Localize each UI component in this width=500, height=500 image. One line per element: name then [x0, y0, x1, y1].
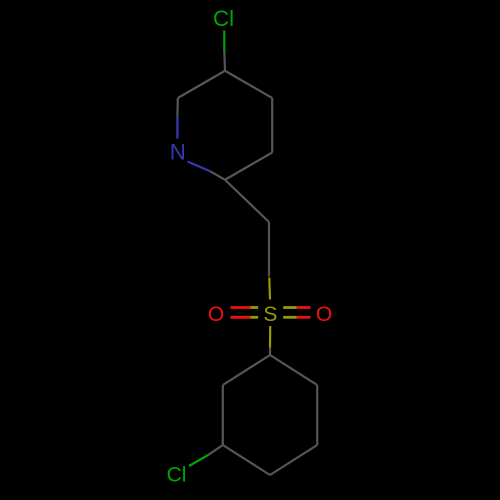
- S=O left double bond line 1 sulfur half: [251, 306, 259, 309]
- S=O left double bond line 1 oxygen half: [231, 306, 251, 309]
- bond N1-C6 carbon half: [210, 171, 225, 179]
- bond C2-N1 blue half: [176, 117, 178, 139]
- S=O right double bond line 2 sulfur half: [283, 316, 296, 319]
- ring edge C5-C6: [225, 153, 272, 180]
- ring edge C4-C5 right vertical: [271, 98, 273, 153]
- svg-text:Cl: Cl: [213, 6, 234, 31]
- S=O right double bond line 2 oxygen half: [297, 316, 311, 319]
- S=O left double bond line 2 oxygen half: [231, 316, 251, 319]
- ring edge C3-C4: [225, 71, 272, 98]
- bond C3'-Cl(bottom) green half: [189, 455, 208, 466]
- bond C2-N1 carbon half: [176, 98, 179, 117]
- chain bond C6-CH2a: [225, 180, 269, 222]
- wire ring edge C3-C2: [178, 71, 225, 98]
- bottom ring edge C2'-C3' left vertical: [222, 385, 224, 445]
- svg-text:N: N: [170, 139, 186, 164]
- bond CH2b-S sulfur colored: [268, 278, 271, 300]
- bond Cl(top)-C3 carbon half: [223, 51, 226, 71]
- bottom ring edge C1'-C2': [223, 355, 270, 385]
- bottom ring edge C4'-C5': [270, 445, 317, 475]
- S=O right double bond line 1 oxygen half: [297, 306, 311, 309]
- chain bond CH2a-CH2b: [268, 222, 270, 277]
- bottom ring edge C3'-C4': [223, 445, 270, 475]
- svg-text:O: O: [316, 303, 332, 326]
- S=O left double bond line 2 sulfur half: [251, 316, 259, 319]
- bottom ring edge C5'-C6' right vertical: [316, 385, 318, 445]
- svg-text:S: S: [263, 303, 277, 326]
- bond S-C1' carbon half: [269, 348, 271, 356]
- svg-text:O: O: [208, 303, 224, 326]
- bond C3'-Cl(bottom) carbon half: [208, 445, 222, 455]
- bond S-C1' sulfur half: [269, 326, 271, 348]
- svg-text:Cl: Cl: [167, 464, 187, 487]
- bond Cl(top)-C3 green half: [223, 31, 225, 52]
- bond N1-C6 blue half: [188, 162, 211, 172]
- bottom ring edge C6'-C1': [270, 355, 317, 385]
- S=O right double bond line 1 sulfur half: [283, 306, 296, 309]
